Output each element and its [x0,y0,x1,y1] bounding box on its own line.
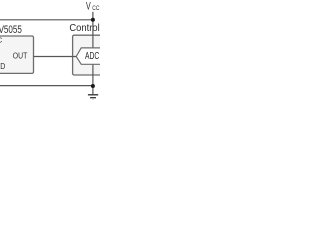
svg-text:Controller: Controller [69,23,100,34]
svg-text:DRV5055: DRV5055 [0,24,22,36]
svg-text:ADC: ADC [85,51,99,62]
wire OUT to ADC [34,56,77,58]
wire VCC rail top [0,19,93,21]
controller U2 box [73,35,107,75]
junction dot VCC [91,18,95,22]
svg-text:C: C [0,37,2,44]
ADC input symbol [76,48,106,64]
svg-text:GND: GND [0,62,5,71]
svg-text:CC: CC [92,5,100,12]
sensor U1 DRV5055 box [0,36,34,73]
ground symbol [88,94,98,96]
wire vertical VCC/GND rail [92,12,94,95]
svg-text:V: V [86,1,91,13]
junction dot GND [91,84,95,88]
svg-text:OUT: OUT [13,52,27,61]
wire GND rail bottom [0,85,93,87]
